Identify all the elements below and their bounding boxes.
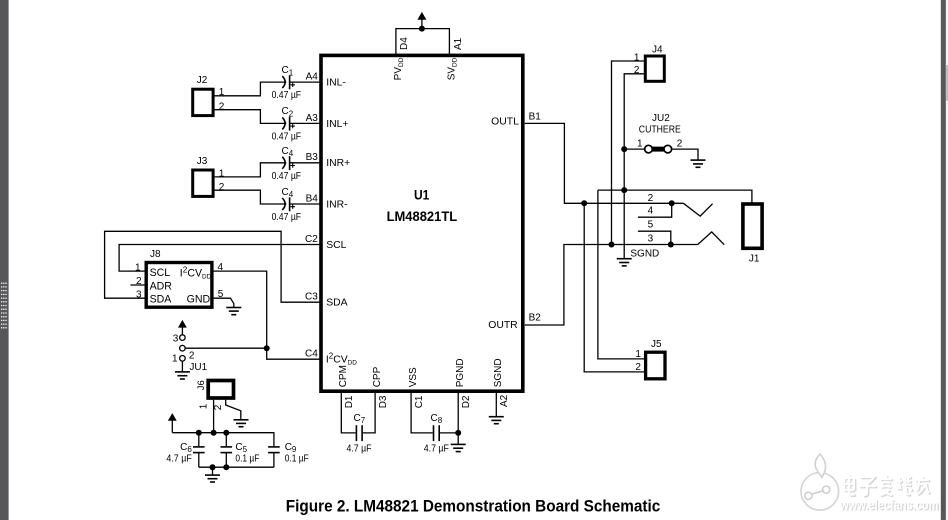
node rail dot C6 (196, 430, 202, 436)
svg-text:B2: B2 (529, 313, 542, 324)
svg-text:2: 2 (219, 182, 225, 193)
ground at PGND (451, 444, 466, 451)
wire C7 to U1.D3 (363, 393, 375, 433)
jumper JU2 (645, 145, 672, 153)
svg-text:D2: D2 (461, 395, 472, 408)
svg-text:1: 1 (634, 52, 640, 63)
svg-text:C1: C1 (282, 65, 294, 77)
svg-text:1: 1 (172, 354, 178, 365)
wire OUTL to J5.2 (584, 203, 645, 372)
svg-text:www.elecfans.com: www.elecfans.com (839, 496, 938, 512)
capacitor C2 (272, 106, 321, 142)
svg-text:J5: J5 (651, 339, 662, 350)
svg-text:B3: B3 (306, 152, 319, 163)
wire bypass top rail (172, 433, 274, 447)
svg-text:VSS: VSS (408, 367, 419, 387)
wire U1.A2 down (495, 393, 497, 417)
svg-text:C9: C9 (285, 442, 297, 454)
svg-text:INL-: INL- (326, 78, 346, 89)
jumper JU1 pin 2 (180, 345, 186, 351)
svg-text:J8: J8 (150, 249, 161, 260)
svg-text:C8: C8 (431, 413, 443, 425)
svg-text:C5: C5 (235, 442, 247, 454)
svg-text:1: 1 (135, 263, 141, 274)
svg-text:C4: C4 (282, 187, 294, 199)
ground at bypass rail (205, 475, 220, 482)
svg-text:0.47 µF: 0.47 µF (272, 212, 302, 223)
ground at A2 SGND (489, 417, 504, 424)
capacitor C8 (424, 413, 449, 454)
wire C8 to PGND node (440, 432, 458, 434)
wire J4.2 to SGND net (624, 74, 644, 259)
ground at JU1.1 (175, 372, 190, 379)
wire JU2.2 to ground (671, 149, 698, 160)
node rail dot J6.1 (211, 430, 217, 436)
wire J8.5 to ground (212, 298, 234, 307)
svg-text:SGND: SGND (493, 358, 504, 387)
connector J6 (196, 380, 233, 398)
power arrow VDD (417, 12, 426, 29)
svg-text:B4: B4 (306, 193, 319, 204)
wire U1.C1 to C8 (411, 393, 433, 433)
svg-text:1: 1 (219, 168, 225, 179)
connector J5 (646, 339, 665, 379)
svg-text:JU2: JU2 (652, 113, 670, 124)
svg-text:3: 3 (648, 234, 654, 245)
svg-text:ADR: ADR (150, 280, 173, 292)
ground at J8.5 (226, 308, 241, 315)
svg-text:1: 1 (199, 403, 210, 409)
wire to JU2.1 (624, 148, 645, 150)
jumper JU1 pin 1 (180, 356, 186, 362)
svg-text:SDA: SDA (326, 298, 347, 309)
wire SGND top rail to J1 (598, 190, 752, 204)
svg-text:3: 3 (173, 333, 179, 344)
node jack 3/5 dot (668, 242, 674, 248)
connector J2 (193, 75, 213, 116)
node I2CVDD junction dot (264, 345, 270, 351)
svg-text:INL+: INL+ (326, 119, 348, 130)
svg-text:2: 2 (219, 101, 225, 112)
svg-text:C1: C1 (414, 395, 425, 408)
wire node to U1.C4 (267, 348, 321, 359)
svg-text:D1: D1 (344, 395, 355, 408)
wire jack pin 4 (638, 203, 672, 217)
svg-text:Figure 2. LM48821 Demonstratio: Figure 2. LM48821 Demonstration Board Sc… (286, 497, 661, 515)
J8 pin 2 stub (130, 284, 146, 286)
svg-text:OUTL: OUTL (491, 116, 519, 127)
svg-text:3: 3 (136, 289, 142, 300)
svg-text:JU1: JU1 (189, 362, 207, 373)
svg-text:GND: GND (187, 294, 211, 306)
viewer left sidebar bar (0, 0, 9, 520)
wire J2.2 to C2 (215, 110, 287, 124)
svg-text:2: 2 (677, 138, 683, 149)
svg-text:2: 2 (634, 65, 640, 76)
wire U1.D2 down (457, 393, 459, 444)
svg-text:0.47 µF: 0.47 µF (272, 132, 302, 143)
svg-text:1: 1 (219, 87, 225, 98)
wire JU1.2 to I2CVDD node (185, 347, 267, 349)
svg-text:4: 4 (648, 206, 654, 217)
svg-text:C2: C2 (305, 234, 318, 245)
svg-text:SCL: SCL (150, 267, 171, 279)
svg-text:CUTHERE: CUTHERE (639, 124, 681, 135)
svg-text:J1: J1 (749, 253, 760, 264)
svg-text:LM48821TL: LM48821TL (387, 209, 458, 225)
node rail dot C5 (223, 430, 229, 436)
ground at J6.2 (234, 420, 249, 427)
wire J6.1 down to rail (213, 400, 215, 433)
watermark url text (839, 496, 939, 513)
svg-text:A4: A4 (306, 72, 319, 83)
svg-text:INR-: INR- (326, 199, 347, 210)
node OUTL dot (to J5.2) (581, 200, 587, 206)
node jack ring dot (J4.1 net) (609, 242, 615, 248)
svg-text:CPM: CPM (338, 365, 349, 387)
capacitor C5 (221, 433, 260, 468)
wire J6.2 to ground (226, 400, 241, 420)
wire SCL (U1.C2 to J8.1) (119, 245, 321, 272)
svg-text:C4: C4 (305, 349, 318, 360)
jumper JU1 pin 3 (180, 335, 186, 341)
ground at JU2.2 (691, 160, 706, 167)
watermark chinese text (844, 475, 930, 496)
viewer right bar (941, 0, 948, 520)
power arrow at bypass rail (168, 413, 177, 433)
svg-text:1: 1 (637, 138, 643, 149)
wire OUTR B2 to jack ring row (525, 245, 698, 326)
svg-text:0.1 µF: 0.1 µF (285, 453, 309, 464)
wire J3.2 to C4b (215, 190, 287, 204)
svg-text:C6: C6 (180, 442, 192, 454)
connector J8 (146, 249, 212, 307)
svg-text:D3: D3 (378, 395, 389, 408)
node JU2 dot (621, 146, 627, 152)
node jack 2/4 dot (669, 200, 675, 206)
capacitor C7 (347, 413, 372, 454)
node SGND top dot (621, 187, 627, 193)
connector J3 (193, 156, 213, 196)
svg-text:U1: U1 (414, 187, 429, 203)
node bottom rail dot gnd (210, 464, 216, 470)
svg-text:J4: J4 (652, 45, 663, 56)
node VDD junction dot (419, 26, 425, 32)
svg-text:B1: B1 (529, 111, 542, 122)
svg-text:OUTR: OUTR (488, 320, 518, 331)
wire U1.D1 to C7 (341, 393, 355, 433)
capacitor C1 (272, 65, 321, 101)
svg-text:J3: J3 (197, 156, 208, 167)
svg-text:J6: J6 (196, 380, 207, 390)
svg-text:C3: C3 (305, 292, 318, 303)
svg-text:C4: C4 (282, 146, 294, 158)
wire bypass bottom rail (199, 466, 274, 468)
svg-text:C7: C7 (354, 413, 366, 425)
wire J3.1 to C4a (215, 163, 287, 177)
wire bottom rail to ground (212, 467, 214, 475)
node PGND junction dot (455, 430, 461, 436)
svg-text:4.7 µF: 4.7 µF (424, 443, 449, 454)
svg-text:C2: C2 (282, 106, 294, 118)
connector J4 (645, 45, 664, 82)
wire jack pin 5 (638, 231, 671, 244)
svg-text:4.7 µF: 4.7 µF (347, 443, 372, 454)
wire J4.1 to ring net (612, 61, 644, 245)
svg-text:5: 5 (648, 220, 654, 231)
watermark elecfans logo (801, 454, 839, 510)
wire J2.1 to C1 (215, 82, 287, 96)
ground at SGND (617, 259, 632, 266)
wire JU1.1 to ground (181, 361, 183, 372)
capacitor C6 (166, 433, 204, 468)
wire J8.4 to I2CVDD node (212, 271, 267, 348)
svg-text:A3: A3 (306, 113, 319, 124)
svg-text:A1: A1 (453, 37, 464, 50)
switch contact top (tip) (683, 203, 712, 216)
svg-text:2: 2 (189, 351, 195, 362)
power arrow above JU1 (178, 320, 187, 335)
svg-text:0.47 µF: 0.47 µF (272, 171, 302, 182)
capacitor C9 (268, 442, 309, 467)
wire SGND rail to J5.1 (598, 190, 646, 359)
svg-text:0.47 µF: 0.47 µF (272, 90, 302, 101)
wire PVDD-SVDD supply loop (396, 29, 450, 55)
svg-text:2: 2 (648, 193, 654, 204)
wire SDA (U1.C3 to J8.3) (105, 231, 321, 302)
svg-text:SCL: SCL (326, 240, 346, 251)
svg-text:SGND: SGND (630, 249, 659, 260)
svg-text:1: 1 (635, 349, 641, 360)
switch contact bottom (ring) (698, 232, 724, 245)
wire OUTL B1 to jack tip row (525, 123, 684, 203)
svg-text:PGND: PGND (455, 358, 466, 387)
svg-text:A2: A2 (499, 394, 510, 407)
svg-text:2: 2 (635, 362, 641, 373)
svg-text:CPP: CPP (372, 366, 383, 387)
svg-text:D4: D4 (399, 37, 410, 50)
capacitor C4 (INR-) (272, 187, 321, 223)
svg-text:0.1 µF: 0.1 µF (235, 453, 259, 464)
svg-text:2: 2 (213, 404, 224, 410)
svg-text:J2: J2 (197, 75, 208, 86)
svg-text:SDA: SDA (150, 294, 173, 306)
connector J1 headphone jack (743, 204, 762, 264)
capacitor C4 (INR+) (272, 146, 321, 182)
op-amp U1 LM48821TL body (321, 55, 523, 391)
svg-text:INR+: INR+ (326, 158, 350, 169)
node bottom rail dot C5 (223, 464, 229, 470)
svg-text:4.7 µF: 4.7 µF (166, 453, 191, 464)
